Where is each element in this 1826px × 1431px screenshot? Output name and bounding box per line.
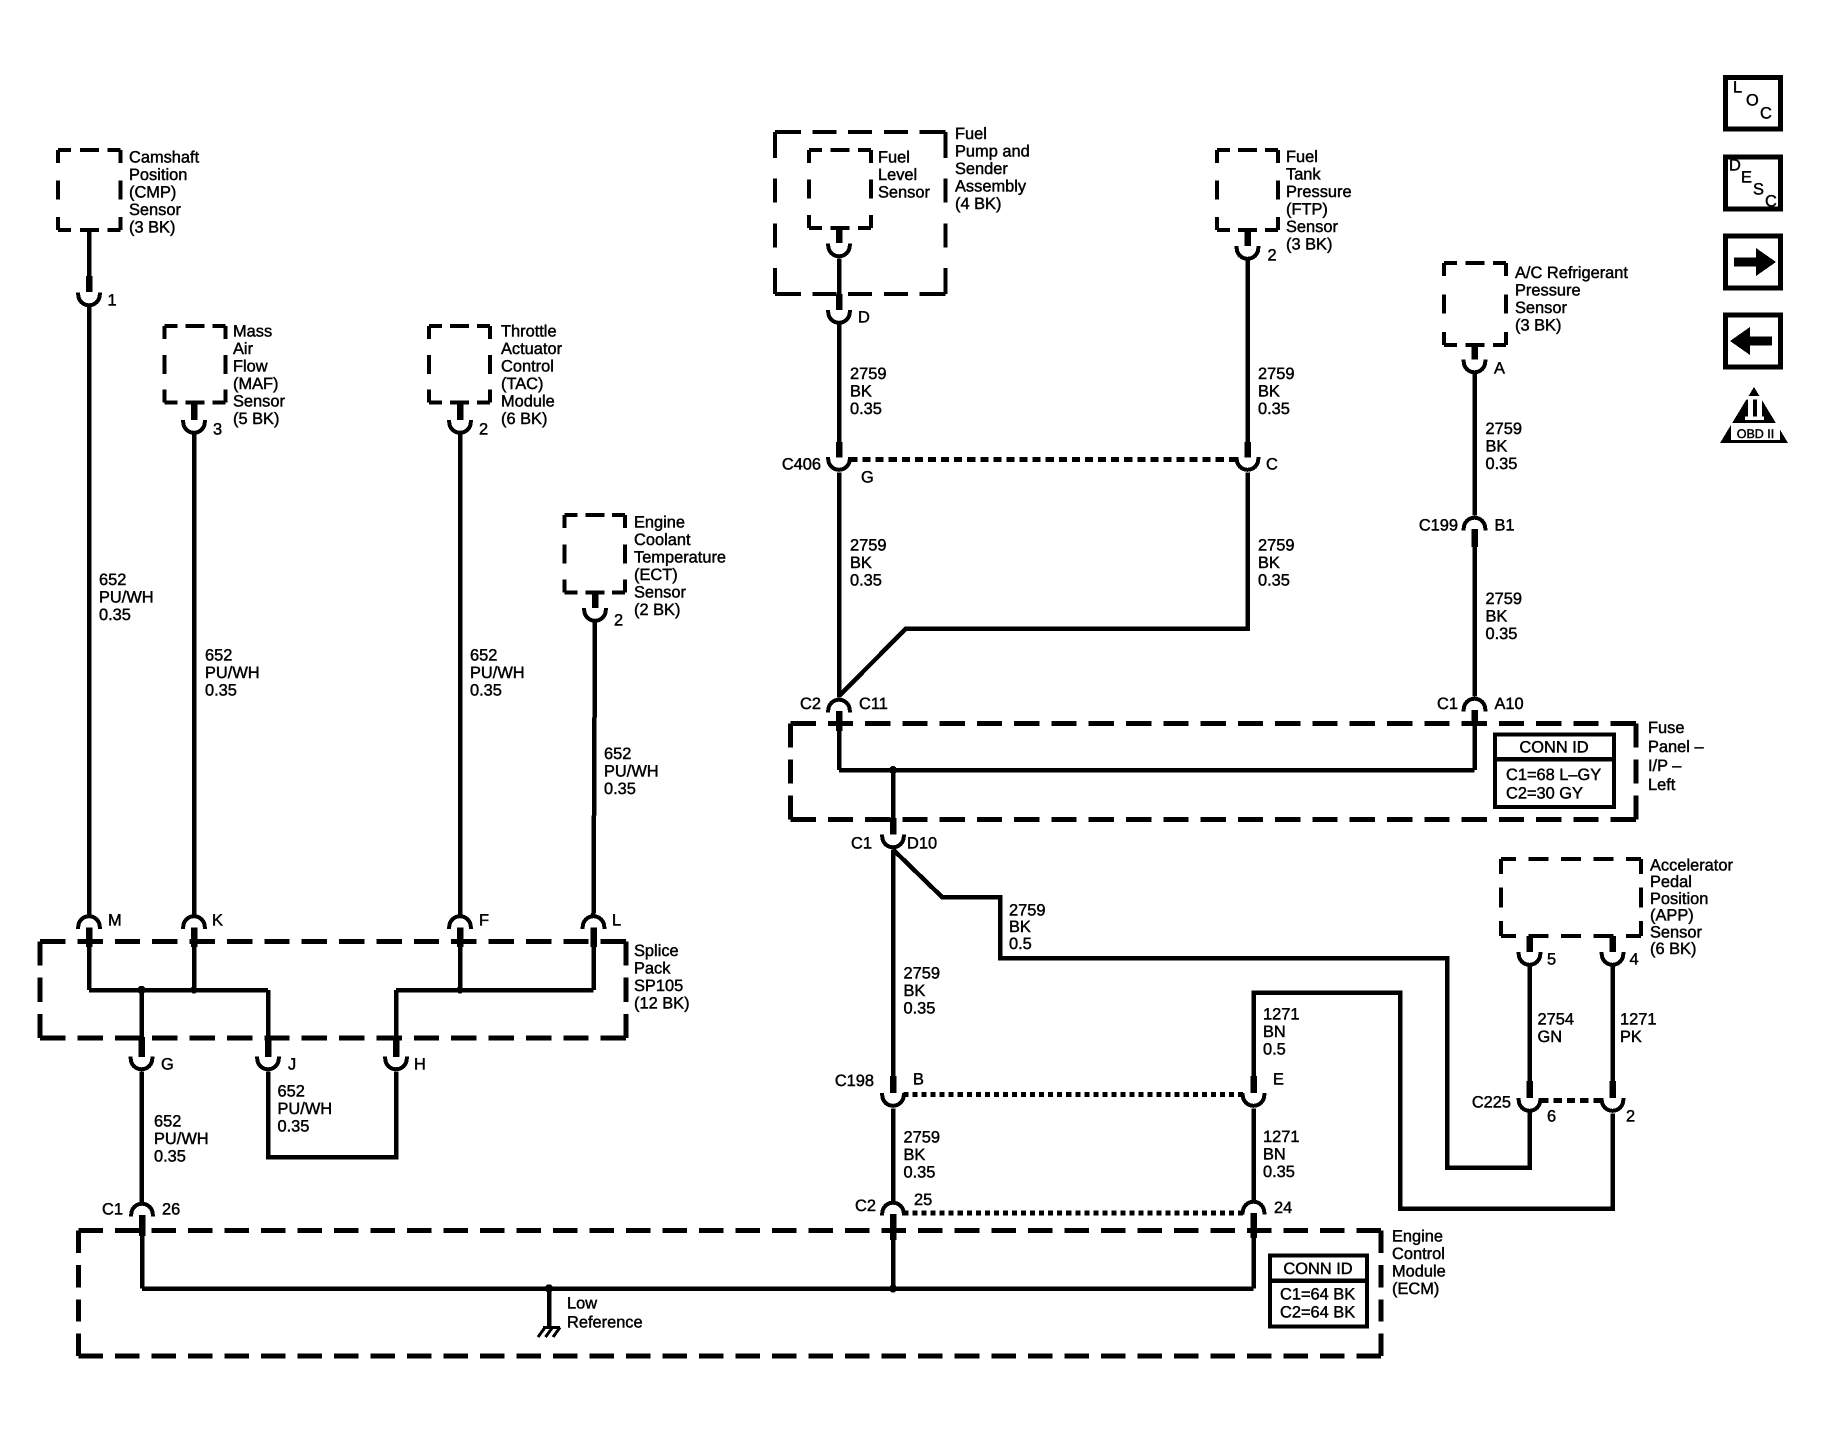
splice pack terminal K [183, 916, 205, 927]
svg-text:M: M [108, 912, 122, 930]
svg-text:Sensor: Sensor [634, 584, 686, 602]
svg-text:C1: C1 [102, 1201, 123, 1219]
svg-text:(APP): (APP) [1650, 907, 1694, 925]
junction fuse bus to D10 [889, 766, 897, 774]
splice junction at F [456, 986, 463, 993]
svg-text:2759: 2759 [850, 537, 886, 555]
svg-text:Actuator: Actuator [501, 340, 563, 358]
svg-text:Pressure: Pressure [1286, 183, 1352, 201]
splice terminal G [138, 1037, 145, 1057]
svg-text:Throttle: Throttle [501, 323, 557, 341]
svg-text:0.35: 0.35 [1486, 455, 1518, 473]
svg-text:(6 BK): (6 BK) [1650, 940, 1696, 958]
svg-text:0.35: 0.35 [850, 400, 882, 418]
wire A10 down to fuse bus [1472, 726, 1477, 770]
wire 2759 BK from B to ECM C2 pin 25 [891, 1109, 896, 1202]
svg-text:2: 2 [1268, 247, 1277, 265]
dotted connector line C198 B to E [904, 1092, 1244, 1097]
svg-text:Flow: Flow [233, 358, 268, 376]
throttle actuator control (TAC) module box [429, 324, 490, 328]
svg-text:2: 2 [479, 421, 488, 439]
svg-text:BK: BK [1009, 918, 1031, 936]
svg-text:2759: 2759 [904, 965, 940, 983]
junction pin 25 wire [889, 1285, 897, 1293]
svg-text:Sensor: Sensor [1515, 299, 1567, 317]
svg-text:PU/WH: PU/WH [205, 664, 260, 682]
connector pin 5 (APP) [1526, 936, 1533, 952]
svg-text:Engine: Engine [1392, 1228, 1443, 1246]
fuse panel box [791, 721, 1637, 726]
svg-text:Control: Control [501, 358, 554, 376]
svg-text:F: F [479, 912, 489, 930]
svg-text:C1: C1 [1437, 695, 1458, 713]
svg-text:(3 BK): (3 BK) [129, 219, 175, 237]
A/C refrigerant pressure sensor box [1444, 261, 1506, 265]
svg-text:24: 24 [1274, 1199, 1292, 1217]
svg-text:Fuel: Fuel [955, 125, 987, 143]
fuse panel connector C1 terminal A10 [1464, 699, 1486, 710]
svg-text:Fuel: Fuel [878, 149, 910, 167]
connector pin D [836, 294, 843, 310]
svg-text:B1: B1 [1495, 517, 1515, 535]
svg-text:(12 BK): (12 BK) [634, 995, 690, 1013]
dotted connector line ECM 25 to 24 [904, 1211, 1244, 1216]
svg-text:C2=30 GY: C2=30 GY [1506, 785, 1583, 803]
splice terminal H [393, 1037, 400, 1057]
svg-text:Camshaft: Camshaft [129, 149, 200, 167]
svg-text:4: 4 [1630, 951, 1639, 969]
svg-text:A/C Refrigerant: A/C Refrigerant [1515, 264, 1628, 282]
svg-text:Coolant: Coolant [634, 531, 691, 549]
wire bus to terminal J [266, 990, 271, 1038]
engine coolant temperature (ECT) sensor box [565, 513, 626, 517]
svg-text:C1=68 L–GY: C1=68 L–GY [1506, 766, 1601, 784]
fuel pump and sender assembly box [775, 130, 946, 134]
svg-text:Sensor: Sensor [878, 184, 930, 202]
wire 2759 BK from C down and left to C2 C11 [839, 473, 1248, 697]
svg-text:Mass: Mass [233, 323, 272, 341]
svg-text:Sensor: Sensor [1650, 923, 1702, 941]
svg-text:(3 BK): (3 BK) [1286, 236, 1332, 254]
svg-text:L: L [1733, 79, 1742, 97]
wire 2759 BK from D to C406 G [837, 325, 842, 444]
svg-text:Pump and: Pump and [955, 143, 1030, 161]
svg-text:2759: 2759 [1258, 365, 1294, 383]
svg-text:1: 1 [108, 292, 117, 310]
connector C198 terminal B [890, 1076, 897, 1093]
wire 2759 BK from C406 G to C2 C11 [837, 473, 842, 698]
svg-text:2759: 2759 [904, 1129, 940, 1147]
svg-text:BK: BK [904, 1146, 926, 1164]
wire pin 24 down into ECM [1251, 1238, 1256, 1289]
svg-text:652: 652 [470, 647, 497, 665]
svg-text:2: 2 [1626, 1108, 1635, 1126]
wire pin 26 down into ECM [140, 1236, 145, 1289]
junction low reference ground [545, 1284, 553, 1292]
svg-text:C: C [1760, 105, 1772, 123]
svg-text:K: K [212, 912, 223, 930]
fuel tank pressure (FTP) sensor box [1217, 148, 1278, 152]
wire 2759 BK from A to C199 B1 [1472, 374, 1477, 516]
wire 652 PU/WH from G to ECM pin 26 [139, 1072, 144, 1203]
accelerator pedal position (APP) sensor box [1501, 857, 1641, 861]
svg-text:E: E [1273, 1071, 1284, 1089]
LOC icon box [1726, 78, 1781, 130]
forward arrow icon box [1726, 236, 1781, 288]
svg-text:0.35: 0.35 [99, 606, 131, 624]
wire L into splice bus [591, 947, 596, 990]
wire 652 PU/WH from TAC pin 2 to splice F [458, 435, 463, 915]
fuse wire from bus to connector C1 D10 [891, 770, 896, 819]
connector C2 terminal C11 [828, 700, 850, 711]
svg-text:BK: BK [850, 383, 872, 401]
svg-text:PU/WH: PU/WH [99, 589, 154, 607]
splice bus wire left [89, 988, 268, 993]
svg-text:0.35: 0.35 [1258, 572, 1290, 590]
connector pin 2 (TAC) [457, 403, 464, 420]
svg-text:(2 BK): (2 BK) [634, 601, 680, 619]
svg-text:Pack: Pack [634, 960, 671, 978]
wire bus to terminal G [139, 990, 144, 1038]
svg-text:PU/WH: PU/WH [154, 1130, 209, 1148]
svg-text:SP105: SP105 [634, 977, 683, 995]
fuse connector C1 terminal D10 [890, 818, 897, 835]
splice pack terminal F [449, 916, 471, 927]
connector pin 2 (ECT) [592, 593, 599, 608]
svg-text:0.35: 0.35 [850, 572, 882, 590]
svg-text:Sender: Sender [955, 160, 1008, 178]
svg-text:0.35: 0.35 [1263, 1163, 1295, 1181]
OBD II triangle symbol [1720, 387, 1788, 443]
svg-text:Level: Level [878, 166, 917, 184]
splice terminal J [265, 1037, 272, 1057]
svg-text:Assembly: Assembly [955, 178, 1027, 196]
wire 2754 GN from pin 5 to C225 terminal 6 [1527, 967, 1532, 1083]
svg-text:(TAC): (TAC) [501, 375, 543, 393]
svg-text:D10: D10 [907, 835, 937, 853]
svg-text:0.35: 0.35 [1258, 400, 1290, 418]
splice pack terminal M [78, 916, 100, 927]
wire pin 25 down into ECM [891, 1240, 896, 1289]
mass air flow (MAF) sensor box [165, 324, 226, 328]
svg-text:0.35: 0.35 [278, 1118, 310, 1136]
svg-text:CONN ID: CONN ID [1519, 739, 1588, 757]
svg-text:G: G [861, 469, 874, 487]
wire 652 PU/WH from pin 3 to splice K [192, 435, 197, 915]
svg-text:BK: BK [1486, 608, 1508, 626]
svg-text:2754: 2754 [1538, 1011, 1574, 1029]
wire F into splice bus [458, 947, 463, 990]
svg-text:5: 5 [1547, 951, 1556, 969]
connector C406 terminal C [1244, 442, 1251, 458]
splice bus wire right [396, 988, 594, 993]
svg-text:BK: BK [904, 982, 926, 1000]
svg-text:Tank: Tank [1286, 166, 1321, 184]
svg-text:2759: 2759 [1486, 590, 1522, 608]
wire CMP to pin 1 [87, 230, 92, 278]
svg-text:BK: BK [1486, 438, 1508, 456]
svg-text:652: 652 [278, 1083, 305, 1101]
svg-text:652: 652 [99, 571, 126, 589]
svg-text:C1=64 BK: C1=64 BK [1280, 1286, 1355, 1304]
svg-text:C: C [1765, 193, 1777, 211]
splice junction at K [190, 986, 197, 993]
wire 1271 PK from pin 4 to C225 terminal 2 [1610, 967, 1615, 1083]
svg-text:O: O [1746, 92, 1759, 110]
svg-text:H: H [414, 1056, 426, 1074]
svg-text:652: 652 [604, 745, 631, 763]
svg-text:2759: 2759 [850, 365, 886, 383]
svg-text:G: G [161, 1056, 174, 1074]
svg-text:S: S [1753, 181, 1764, 199]
svg-text:GN: GN [1538, 1028, 1563, 1046]
svg-text:(3 BK): (3 BK) [1515, 317, 1561, 335]
svg-text:Low: Low [567, 1295, 597, 1313]
dotted connector line C406 G to C [850, 457, 1238, 462]
fuel level sensor terminal [836, 228, 843, 243]
ECM connector C1 pin 26 [131, 1204, 153, 1215]
connector C406 terminal G [836, 442, 843, 458]
svg-text:C2=64 BK: C2=64 BK [1280, 1304, 1355, 1322]
svg-text:BN: BN [1263, 1023, 1286, 1041]
svg-text:Fuel: Fuel [1286, 148, 1318, 166]
svg-text:(ECM): (ECM) [1392, 1280, 1439, 1298]
svg-text:(5 BK): (5 BK) [233, 410, 279, 428]
ECM connector C2 pin 25 [882, 1203, 904, 1214]
svg-text:D: D [858, 309, 870, 327]
wire 1271 BN from E to ECM pin 24 [1251, 1109, 1256, 1201]
wire 652 PU/WH from pin 1 to splice M [87, 307, 92, 915]
svg-text:2759: 2759 [1486, 420, 1522, 438]
svg-text:D: D [1729, 157, 1741, 175]
svg-text:0.35: 0.35 [1486, 625, 1518, 643]
dotted connector line C225 6 to 2 [1540, 1098, 1602, 1103]
svg-text:Panel –: Panel – [1648, 738, 1704, 756]
svg-text:C2: C2 [855, 1197, 876, 1215]
svg-text:3: 3 [213, 421, 222, 439]
wire 2759 BK from FTP pin 2 to C406 C [1245, 261, 1250, 444]
svg-text:C1: C1 [851, 835, 872, 853]
svg-text:Engine: Engine [634, 514, 685, 532]
svg-text:C225: C225 [1472, 1094, 1511, 1112]
connector pin 1 (CMP) [86, 276, 93, 292]
wire U-loop J to H 652 PU/WH [268, 1072, 396, 1158]
svg-text:C198: C198 [835, 1072, 874, 1090]
connector pin 4 (APP) [1609, 936, 1616, 952]
wire 1271 PK from C225 2 to ECM route [1254, 993, 1613, 1209]
ECM CONN ID table [1270, 1256, 1367, 1327]
svg-text:Control: Control [1392, 1245, 1445, 1263]
svg-text:Module: Module [501, 393, 555, 411]
svg-text:C: C [1266, 456, 1278, 474]
svg-text:Sensor: Sensor [129, 201, 181, 219]
fuse panel CONN ID table [1495, 735, 1614, 808]
svg-text:Accelerator: Accelerator [1650, 857, 1733, 875]
svg-text:1271: 1271 [1620, 1011, 1656, 1029]
wire 2759 BK 0.5 from D10 to C225 terminal 6 [893, 850, 1530, 1168]
svg-text:BK: BK [1258, 554, 1280, 572]
svg-text:J: J [288, 1056, 296, 1074]
fuse panel internal bus wire [839, 768, 1475, 773]
svg-text:(CMP): (CMP) [129, 184, 176, 202]
svg-text:Sensor: Sensor [233, 393, 285, 411]
camshaft position (CMP) sensor box [58, 148, 121, 152]
svg-text:B: B [913, 1071, 924, 1089]
svg-text:2: 2 [614, 612, 623, 630]
svg-text:A10: A10 [1495, 695, 1524, 713]
connector C225 terminal 6 [1526, 1081, 1533, 1098]
ECM internal low reference bus wire [142, 1286, 1254, 1291]
svg-text:PU/WH: PU/WH [278, 1100, 333, 1118]
svg-text:Fuse: Fuse [1648, 719, 1684, 737]
svg-text:A: A [1494, 360, 1505, 378]
svg-text:Sensor: Sensor [1286, 218, 1338, 236]
svg-text:0.35: 0.35 [604, 780, 636, 798]
wire M into splice bus [87, 947, 92, 990]
connector C198 terminal E [1250, 1076, 1257, 1093]
svg-text:0.35: 0.35 [154, 1148, 186, 1166]
connector C199 terminal B1 [1464, 518, 1486, 529]
svg-text:(FTP): (FTP) [1286, 201, 1328, 219]
svg-text:PK: PK [1620, 1028, 1642, 1046]
svg-text:Pedal: Pedal [1650, 873, 1692, 891]
svg-text:652: 652 [205, 647, 232, 665]
svg-text:PU/WH: PU/WH [470, 664, 525, 682]
svg-text:C2: C2 [800, 695, 821, 713]
svg-text:C11: C11 [859, 695, 888, 713]
svg-text:PU/WH: PU/WH [604, 763, 659, 781]
svg-text:652: 652 [154, 1113, 181, 1131]
svg-text:26: 26 [162, 1201, 180, 1219]
splice pack SP105 box [40, 939, 626, 944]
svg-text:C406: C406 [782, 456, 821, 474]
svg-text:1271: 1271 [1263, 1006, 1299, 1024]
svg-text:0.5: 0.5 [1263, 1041, 1286, 1059]
svg-text:C199: C199 [1419, 517, 1458, 535]
svg-text:25: 25 [914, 1191, 932, 1209]
svg-text:(4 BK): (4 BK) [955, 195, 1001, 213]
wire 652 PU/WH from ECT pin 2 to splice L [594, 623, 596, 915]
svg-text:0.35: 0.35 [470, 682, 502, 700]
svg-text:0.35: 0.35 [205, 682, 237, 700]
svg-text:BK: BK [850, 554, 872, 572]
ground symbol (low reference) [538, 1328, 560, 1338]
svg-text:1271: 1271 [1263, 1128, 1299, 1146]
svg-text:2759: 2759 [1258, 537, 1294, 555]
svg-text:Left: Left [1648, 776, 1676, 794]
svg-text:Pressure: Pressure [1515, 282, 1581, 300]
ECM connector C2 pin 24 [1243, 1202, 1265, 1213]
svg-text:Position: Position [129, 166, 187, 184]
connector C225 terminal 2 [1609, 1081, 1616, 1098]
DESC icon box [1726, 157, 1781, 209]
svg-text:OBD II: OBD II [1737, 427, 1775, 441]
svg-text:(ECT): (ECT) [634, 566, 678, 584]
svg-text:I/P –: I/P – [1648, 757, 1682, 775]
svg-text:(MAF): (MAF) [233, 375, 279, 393]
svg-text:Reference: Reference [567, 1314, 643, 1332]
connector pin A (A/C sensor) [1471, 345, 1478, 360]
svg-text:6: 6 [1547, 1108, 1556, 1126]
splice pack terminal L [583, 916, 605, 927]
svg-text:L: L [612, 912, 621, 930]
svg-text:(6 BK): (6 BK) [501, 410, 547, 428]
svg-text:BN: BN [1263, 1146, 1286, 1164]
connector pin 3 (MAF) [191, 403, 198, 420]
back arrow icon box [1726, 315, 1781, 367]
engine control module (ECM) box [79, 1228, 1382, 1233]
svg-text:2759: 2759 [1009, 902, 1045, 920]
connector pin 2 (FTP) [1244, 230, 1251, 246]
svg-text:CONN ID: CONN ID [1283, 1260, 1352, 1278]
svg-text:Position: Position [1650, 890, 1708, 908]
wire C11 down to fuse bus [837, 731, 842, 770]
splice junction at G [137, 986, 145, 994]
svg-text:Air: Air [233, 340, 254, 358]
svg-text:0.5: 0.5 [1009, 935, 1032, 953]
wire to ground symbol [547, 1289, 552, 1329]
svg-text:BK: BK [1258, 383, 1280, 401]
svg-text:Splice: Splice [634, 942, 679, 960]
wire bus to terminal H [394, 990, 399, 1038]
wire 2759 BK from C199 to fuse C1 A10 [1472, 547, 1477, 697]
fuel level sensor box [809, 148, 871, 152]
svg-text:0.35: 0.35 [904, 1000, 936, 1018]
svg-text:0.35: 0.35 [904, 1164, 936, 1182]
wire 2759 BK from D10 down to C198 B [891, 850, 896, 1077]
svg-text:Temperature: Temperature [634, 549, 726, 567]
wire fuel level sensor to pin D [837, 259, 842, 297]
svg-text:E: E [1741, 169, 1752, 187]
svg-text:Module: Module [1392, 1263, 1446, 1281]
wire K into splice bus [192, 947, 197, 990]
